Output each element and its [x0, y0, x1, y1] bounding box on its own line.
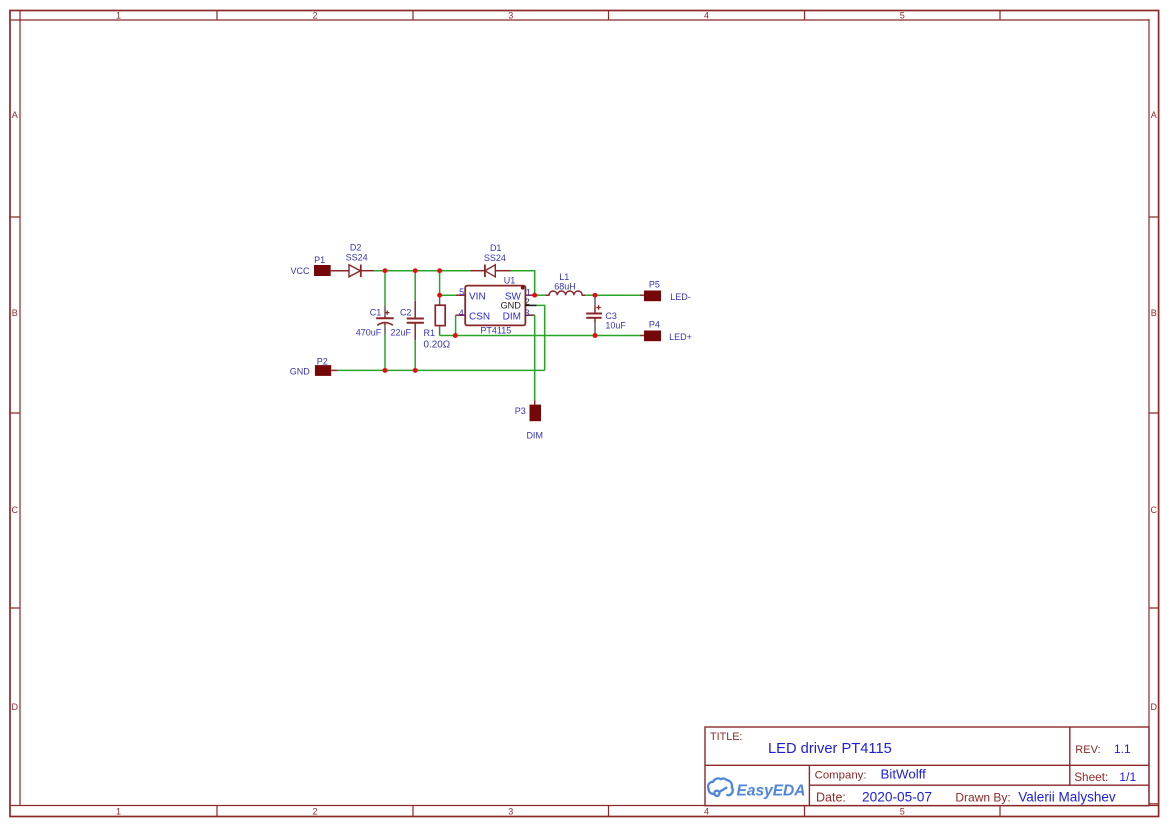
- svg-text:1.1: 1.1: [1114, 742, 1131, 756]
- wire C1 bottom: [384, 335, 386, 371]
- capacitor C2: [407, 301, 424, 341]
- connector P2: [315, 365, 337, 376]
- svg-text:U1: U1: [504, 275, 516, 285]
- svg-text:EasyEDA: EasyEDA: [737, 783, 806, 800]
- svg-text:0.20Ω: 0.20Ω: [423, 340, 450, 351]
- svg-text:5: 5: [900, 11, 905, 21]
- svg-text:REV:: REV:: [1075, 744, 1100, 756]
- svg-text:P3: P3: [515, 406, 526, 416]
- svg-text:3: 3: [508, 11, 513, 21]
- svg-text:C: C: [1151, 505, 1158, 515]
- svg-text:GND: GND: [500, 301, 521, 311]
- svg-text:D1: D1: [490, 243, 502, 253]
- svg-text:2020-05-07: 2020-05-07: [862, 790, 932, 805]
- svg-text:4: 4: [704, 11, 709, 21]
- svg-text:2: 2: [312, 807, 317, 817]
- svg-text:C2: C2: [400, 307, 412, 317]
- svg-text:C1: C1: [370, 307, 382, 317]
- wire GND pin route: [537, 305, 545, 370]
- svg-text:470uF: 470uF: [356, 327, 382, 337]
- svg-text:A: A: [1151, 110, 1157, 120]
- capacitor C1: [376, 306, 394, 335]
- svg-text:B: B: [12, 308, 18, 318]
- svg-text:P1: P1: [314, 255, 325, 265]
- svg-text:68uH: 68uH: [554, 281, 576, 291]
- wire top rail: [374, 270, 470, 272]
- svg-text:2: 2: [312, 11, 317, 21]
- wire D1 to SW node: [511, 271, 535, 296]
- capacitor C3: [586, 295, 602, 335]
- wire VIN: [440, 294, 456, 296]
- svg-text:R1: R1: [424, 328, 436, 338]
- connector P3: [530, 401, 542, 422]
- svg-text:TITLE:: TITLE:: [710, 731, 742, 743]
- pin 1 SW: [505, 288, 535, 303]
- svg-text:5: 5: [900, 807, 905, 817]
- svg-text:LED+: LED+: [669, 332, 692, 342]
- wire C3 node to P5: [595, 294, 640, 296]
- pin 5 VIN: [456, 287, 486, 303]
- svg-text:Date:: Date:: [816, 791, 846, 805]
- svg-text:PT4115: PT4115: [480, 325, 511, 335]
- wire R1 drop: [439, 271, 441, 296]
- svg-text:B: B: [1151, 308, 1157, 318]
- svg-text:Sheet:: Sheet:: [1074, 770, 1108, 784]
- svg-text:C: C: [11, 505, 18, 515]
- svg-text:5: 5: [459, 287, 464, 297]
- svg-text:CSN: CSN: [469, 312, 490, 323]
- svg-text:A: A: [12, 110, 18, 120]
- svg-text:LED-: LED-: [670, 292, 691, 302]
- svg-text:VIN: VIN: [469, 292, 486, 303]
- wire SW to L1: [535, 294, 546, 296]
- svg-text:Company:: Company:: [815, 769, 867, 781]
- diode D2: [349, 265, 374, 278]
- svg-text:10uF: 10uF: [605, 321, 626, 331]
- EasyEDA logo: [708, 778, 733, 795]
- svg-text:Valerii Malyshev: Valerii Malyshev: [1018, 790, 1116, 805]
- svg-text:DIM: DIM: [526, 430, 543, 440]
- wire GND rail: [337, 369, 545, 371]
- svg-text:VCC: VCC: [290, 266, 310, 276]
- svg-text:3: 3: [524, 308, 529, 318]
- wire L1 to C3 node: [585, 294, 595, 296]
- svg-text:P4: P4: [649, 319, 660, 329]
- title block: [705, 727, 1149, 806]
- svg-text:DIM: DIM: [503, 312, 521, 323]
- svg-text:Drawn By:: Drawn By:: [955, 790, 1010, 804]
- wire C2 drop: [414, 271, 416, 301]
- junction dots: [383, 268, 598, 373]
- resistor R1: [435, 295, 445, 335]
- svg-text:BitWolff: BitWolff: [881, 767, 927, 782]
- svg-text:1/1: 1/1: [1119, 770, 1136, 784]
- svg-text:LED driver PT4115: LED driver PT4115: [768, 741, 892, 757]
- svg-text:P5: P5: [649, 280, 660, 290]
- wire CSN vertical: [455, 315, 457, 335]
- connector P5: [640, 291, 661, 302]
- svg-text:4: 4: [704, 807, 709, 817]
- pin 2 GND: [500, 297, 536, 311]
- svg-text:D2: D2: [350, 243, 362, 253]
- svg-text:1: 1: [116, 807, 121, 817]
- connector P1: [314, 265, 349, 276]
- svg-text:GND: GND: [290, 366, 311, 376]
- svg-text:3: 3: [508, 807, 513, 817]
- svg-text:SS24: SS24: [346, 252, 368, 262]
- op-amp U1 body: [465, 286, 525, 326]
- wire C1 drop: [384, 271, 386, 306]
- svg-text:D: D: [11, 702, 18, 712]
- pin 4 CSN: [456, 308, 491, 323]
- diode D1: [470, 265, 510, 278]
- svg-text:P2: P2: [317, 356, 328, 366]
- wire C2 bottom: [414, 341, 416, 371]
- inductor L1: [546, 291, 586, 295]
- wire bottom CSN net: [440, 335, 640, 337]
- svg-text:2: 2: [525, 297, 530, 307]
- svg-text:C3: C3: [605, 311, 617, 321]
- svg-text:4: 4: [459, 308, 464, 318]
- svg-text:SS24: SS24: [484, 253, 506, 263]
- svg-text:22uF: 22uF: [391, 327, 412, 337]
- svg-text:1: 1: [116, 11, 121, 21]
- svg-text:D: D: [1151, 702, 1158, 712]
- connector P4: [640, 331, 661, 342]
- pin 3 DIM: [503, 308, 535, 322]
- wire DIM drop: [534, 315, 536, 400]
